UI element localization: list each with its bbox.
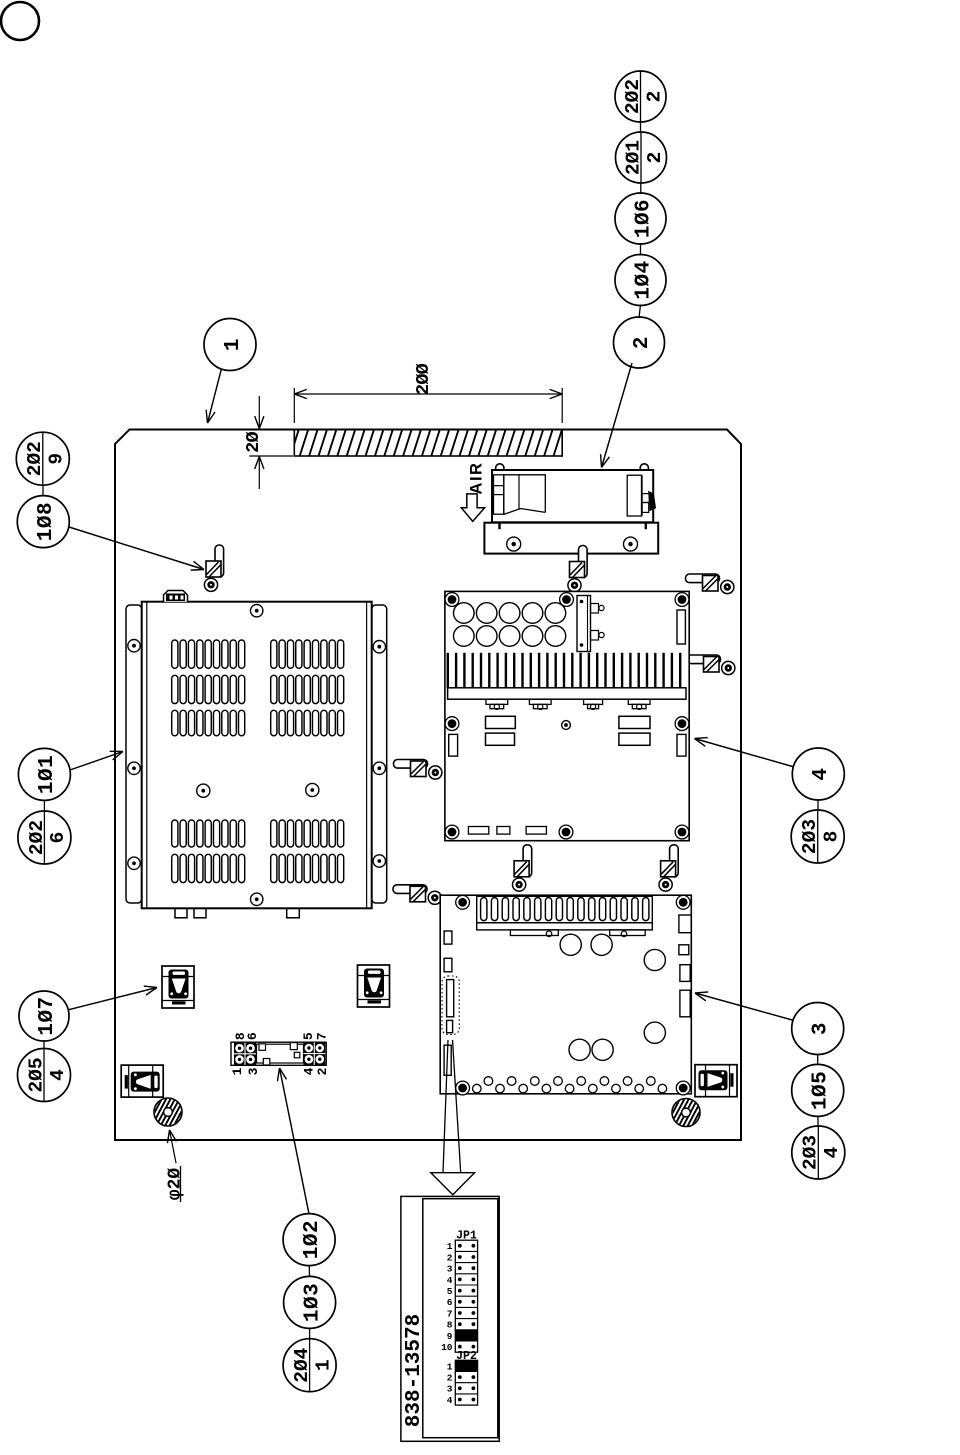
svg-text:1Ø4: 1Ø4 bbox=[632, 260, 655, 299]
svg-text:8: 8 bbox=[447, 1320, 453, 1331]
svg-text:1: 1 bbox=[312, 1359, 334, 1371]
svg-text:2Ø: 2Ø bbox=[243, 432, 264, 453]
svg-text:8: 8 bbox=[821, 831, 843, 843]
svg-text:2Ø4: 2Ø4 bbox=[291, 1347, 313, 1382]
svg-text:4: 4 bbox=[810, 767, 833, 780]
svg-text:2Ø1: 2Ø1 bbox=[622, 140, 644, 175]
svg-text:2: 2 bbox=[447, 1373, 453, 1384]
svg-text:4: 4 bbox=[821, 1146, 843, 1158]
svg-text:3: 3 bbox=[447, 1384, 453, 1395]
svg-text:2Ø5: 2Ø5 bbox=[25, 1057, 47, 1092]
svg-text:2: 2 bbox=[644, 152, 666, 164]
svg-text:7: 7 bbox=[315, 1032, 330, 1040]
svg-text:1Ø8: 1Ø8 bbox=[35, 502, 58, 541]
svg-text:1Ø1: 1Ø1 bbox=[36, 755, 59, 794]
svg-text:2Ø2: 2Ø2 bbox=[622, 79, 644, 114]
svg-text:2Ø3: 2Ø3 bbox=[800, 1135, 822, 1170]
svg-text:10: 10 bbox=[441, 1342, 453, 1353]
svg-text:3: 3 bbox=[246, 1067, 261, 1075]
svg-text:4: 4 bbox=[447, 1395, 453, 1406]
svg-text:2: 2 bbox=[631, 336, 654, 349]
svg-text:2ØØ: 2ØØ bbox=[413, 363, 434, 395]
svg-text:9: 9 bbox=[46, 453, 68, 465]
svg-text:4: 4 bbox=[447, 1275, 453, 1286]
svg-text:6: 6 bbox=[447, 1297, 453, 1308]
svg-text:2Ø3: 2Ø3 bbox=[799, 819, 821, 854]
svg-text:2: 2 bbox=[315, 1067, 330, 1075]
svg-text:1Ø2: 1Ø2 bbox=[301, 1220, 324, 1259]
svg-text:9: 9 bbox=[447, 1331, 453, 1342]
svg-text:4: 4 bbox=[47, 1069, 69, 1081]
svg-text:6: 6 bbox=[47, 832, 69, 844]
svg-text:7: 7 bbox=[447, 1308, 453, 1319]
svg-text:2Ø2: 2Ø2 bbox=[24, 441, 46, 476]
svg-text:4: 4 bbox=[301, 1067, 316, 1075]
svg-text:φ2Ø: φ2Ø bbox=[166, 1168, 186, 1201]
svg-text:1: 1 bbox=[230, 1067, 245, 1075]
svg-text:6: 6 bbox=[245, 1032, 260, 1040]
svg-text:2: 2 bbox=[447, 1252, 453, 1263]
svg-text:3: 3 bbox=[447, 1264, 453, 1275]
svg-text:1Ø5: 1Ø5 bbox=[810, 1071, 833, 1110]
svg-text:1Ø3: 1Ø3 bbox=[301, 1283, 324, 1322]
svg-text:5: 5 bbox=[447, 1286, 453, 1297]
svg-text:1Ø7: 1Ø7 bbox=[36, 996, 59, 1035]
svg-text:5: 5 bbox=[301, 1032, 316, 1040]
svg-text:2: 2 bbox=[643, 91, 665, 103]
svg-text:838-13578: 838-13578 bbox=[403, 1314, 426, 1427]
svg-text:1: 1 bbox=[447, 1241, 453, 1252]
svg-text:3: 3 bbox=[810, 1022, 833, 1035]
svg-text:2Ø2: 2Ø2 bbox=[26, 820, 48, 855]
svg-text:AIR: AIR bbox=[468, 462, 486, 495]
svg-text:1Ø6: 1Ø6 bbox=[632, 199, 655, 238]
svg-text:1: 1 bbox=[447, 1361, 453, 1372]
svg-text:1: 1 bbox=[222, 338, 245, 351]
